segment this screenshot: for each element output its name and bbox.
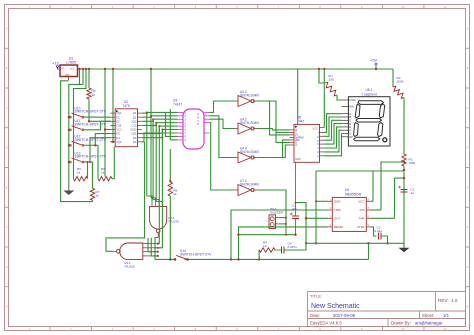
switch U11 SWITCH-SPST-2TV — [68, 119, 107, 131]
svg-text:C12: C12 — [131, 124, 136, 128]
svg-text:C: C — [6, 107, 8, 110]
svg-text:74LS20: 74LS20 — [124, 265, 135, 269]
wires bus verticals down — [147, 69, 163, 201]
inverter U4.2 SN74LS04N — [234, 118, 260, 134]
resistor R6 — [98, 167, 112, 181]
title block REV — [438, 298, 458, 303]
resistor R7 — [90, 162, 99, 202]
capacitor C4 0.047u — [275, 242, 306, 254]
wire R2 down — [403, 98, 405, 155]
switch U10 SWITCH-SPST-2TV — [68, 107, 107, 119]
svg-text:330: 330 — [329, 78, 334, 82]
svg-text:100k: 100k — [409, 161, 416, 165]
svg-text:1k: 1k — [96, 193, 100, 197]
title block Date label — [310, 313, 320, 318]
wire U3 A to inverter 1 — [210, 101, 234, 112]
U6.1 7-segment display — [342, 88, 391, 146]
U2 7475 latch — [111, 100, 142, 147]
title block drawn by value — [415, 321, 443, 326]
svg-text:TRIG: TRIG — [334, 208, 342, 212]
wire bottom rail — [155, 243, 369, 259]
wire +5V drop x113 — [111, 69, 115, 143]
svg-text:SWITCH-SPST-2TV: SWITCH-SPST-2TV — [75, 155, 107, 159]
svg-text:7 segment: 7 segment — [361, 93, 376, 97]
svg-text:VCC: VCC — [313, 127, 319, 131]
junction dots bottom rail — [169, 258, 260, 260]
svg-text:SN74LS04N: SN74LS04N — [240, 150, 259, 154]
svg-text:10: 10 — [263, 244, 267, 248]
svg-text:U9: U9 — [345, 188, 349, 192]
svg-text:Drawn By:: Drawn By: — [391, 321, 411, 326]
wire R5 right up to U13 row — [87, 161, 89, 179]
inverter U4.4 SN74LS04N — [234, 147, 260, 163]
svg-text:SWITCH-SPST-2TV: SWITCH-SPST-2TV — [75, 110, 107, 114]
wires U5 outputs to display segments — [324, 114, 342, 156]
svg-text:D2: D2 — [116, 119, 120, 123]
+12V supply symbol — [52, 61, 60, 70]
wire U12 to U2 D3 — [85, 134, 111, 179]
resistor R3 100k — [402, 154, 416, 166]
svg-text:0.01u: 0.01u — [375, 229, 383, 233]
svg-text:D1: D1 — [116, 115, 120, 119]
wire 555 OUT left — [306, 217, 328, 219]
svg-text:GND: GND — [130, 128, 136, 132]
svg-text:1Q4: 1Q4 — [116, 140, 122, 144]
wire U13 to U2 D4 — [85, 138, 111, 163]
svg-text:BUZZER: BUZZER — [271, 211, 284, 215]
svg-text:GND: GND — [334, 200, 340, 204]
wire GND net long horizontal — [316, 170, 404, 172]
svg-text:7475: 7475 — [122, 104, 130, 108]
wire regulator gnd to bottom left rail — [61, 81, 93, 202]
svg-text:anujbhatnagar: anujbhatnagar — [415, 321, 443, 326]
svg-text:G: G — [6, 266, 8, 269]
capacitor C1 1u — [399, 186, 415, 195]
wire inverter4 out to buzzer line — [257, 190, 287, 235]
wire U3 C to inverter 2 — [210, 119, 234, 128]
wire U3 area down x170 — [169, 149, 171, 183]
U5 7447 decoder — [290, 116, 325, 163]
svg-text:TITLE:: TITLE: — [310, 294, 322, 299]
svg-text:Sheet:: Sheet: — [422, 313, 434, 318]
wire U3 D to inverter 4 — [210, 123, 234, 190]
U8.1 74LS20 NAND — [150, 202, 179, 238]
wire 555 THR stub — [371, 217, 395, 219]
wire 555 VCC stub — [371, 200, 373, 202]
title block title text — [311, 303, 360, 310]
buzzer BG1 — [269, 207, 284, 228]
svg-text:Vout: Vout — [70, 68, 74, 71]
svg-text:D: D — [6, 147, 8, 150]
title block Sheet label — [422, 313, 434, 318]
svg-text:D3: D3 — [116, 132, 120, 136]
svg-text:DIS: DIS — [360, 208, 365, 212]
wire +5V down to U5 area — [297, 69, 299, 124]
wire 555 DIS stub — [371, 209, 381, 211]
svg-text:NE555DR: NE555DR — [345, 193, 362, 197]
title block frame — [308, 292, 466, 327]
wire R8 down to rail — [169, 196, 171, 259]
wire Rn to display COM — [337, 95, 342, 100]
ground symbol left — [63, 186, 74, 195]
svg-text:D: D — [467, 147, 469, 150]
wire U9 output up loop — [106, 142, 145, 251]
wire inverter1 out to U5 LT — [257, 101, 290, 143]
inverter U7.2 SN74LS04N — [234, 179, 260, 195]
wire VCC up route — [372, 171, 374, 201]
resistor R4 — [87, 88, 96, 99]
svg-text:1k: 1k — [173, 192, 177, 196]
resistor R5 — [74, 167, 88, 181]
svg-text:G: G — [467, 266, 469, 269]
wire 555 TRIG left — [231, 210, 328, 259]
ground symbol right — [399, 243, 410, 252]
title block sheet value — [443, 313, 450, 318]
svg-text:1/1: 1/1 — [443, 313, 450, 318]
svg-text:47u: 47u — [292, 207, 297, 211]
wire 555 GND left — [315, 171, 328, 245]
svg-text:Vin: Vin — [62, 69, 65, 71]
wire +5V to U5 VCC — [323, 69, 325, 128]
wire buzzer bottom rail — [237, 234, 296, 236]
resistor network Rn 330 — [325, 74, 337, 96]
svg-text:1k: 1k — [101, 170, 105, 174]
svg-text:Date:: Date: — [310, 313, 320, 318]
wire rail short drop — [79, 69, 81, 84]
title block TITLE label — [310, 294, 322, 299]
wire rail drop to R5 — [74, 69, 87, 179]
wire 555 CTRL to C2 — [371, 227, 377, 236]
U9.1 74LS20 NAND — [112, 243, 159, 269]
svg-text:C34: C34 — [116, 124, 121, 128]
svg-text:L7805: L7805 — [66, 61, 76, 65]
wire +5V to U2 VCC — [104, 69, 111, 177]
title block date value — [333, 313, 356, 318]
wire ground rail — [306, 242, 404, 244]
svg-text:Q4: Q4 — [133, 136, 137, 140]
svg-text:U6.1: U6.1 — [366, 88, 373, 92]
wire U3 B to inverter 3 — [210, 116, 234, 158]
svg-text:Q4: Q4 — [133, 140, 137, 144]
junctions on R3 line — [403, 169, 405, 180]
resistor R2 100K — [393, 76, 405, 98]
wire inverter2 out to U5 B — [257, 129, 290, 130]
wire R6 right up to U2 — [112, 147, 114, 179]
svg-text:C: C — [467, 107, 469, 110]
svg-text:GND: GND — [295, 158, 301, 161]
svg-text:A: A — [295, 143, 297, 147]
U9 NE555DR timer — [328, 188, 372, 231]
svg-text:REV: 1.0: REV: 1.0 — [438, 298, 458, 303]
svg-text:100K: 100K — [397, 80, 405, 84]
wire rail drop 3 to R4 — [88, 69, 90, 88]
switch U12 SWITCH-SPST-2TV — [68, 135, 107, 147]
svg-text:COM: COM — [349, 98, 355, 102]
svg-text:GND: GND — [65, 75, 70, 77]
svg-text:N/A: N/A — [349, 105, 354, 109]
svg-text:74147: 74147 — [173, 103, 182, 107]
svg-text:+12: +12 — [52, 61, 60, 66]
wire U10 to U2 D1 — [85, 116, 111, 118]
switch U14 SWITCH-SPST-2TV — [174, 249, 212, 260]
svg-text:H: H — [6, 306, 8, 309]
svg-text:1k: 1k — [92, 93, 96, 97]
title block EasyEDA version — [310, 321, 342, 326]
wires bus to U9 inputs — [148, 199, 162, 256]
wire R3 down to ground — [403, 166, 405, 243]
svg-text:SWITCH-SPST-2TV: SWITCH-SPST-2TV — [75, 122, 107, 126]
svg-text:CTRL: CTRL — [357, 225, 365, 229]
svg-text:SN74LS04N: SN74LS04N — [240, 121, 259, 125]
svg-text:OUT: OUT — [334, 217, 340, 221]
capacitor C2 0.01u — [375, 225, 383, 239]
wires U2 outputs to U3 inputs bus — [142, 109, 178, 142]
svg-text:D: D — [197, 123, 199, 126]
regulator U1 L7805 — [57, 57, 80, 81]
title block Drawn By label — [391, 321, 411, 326]
svg-text:DP: DP — [349, 135, 353, 139]
+5V power symbol — [370, 58, 378, 70]
wire C3 jog to OUT line — [295, 202, 308, 245]
U3 74147 encoder — [173, 99, 210, 150]
svg-text:H: H — [467, 306, 469, 309]
capacitor C3 47u — [290, 162, 299, 234]
svg-text:1u: 1u — [411, 191, 415, 195]
svg-text:SN74LS04N: SN74LS04N — [240, 93, 259, 97]
wire U11 to U2 D2 — [85, 121, 111, 130]
wire rail drop to switch common — [69, 69, 83, 186]
svg-text:Q1: Q1 — [133, 111, 137, 115]
wire inverter3 out to U5 RBI — [257, 140, 290, 158]
svg-text:VCC: VCC — [116, 128, 122, 132]
svg-text:2017-09-09: 2017-09-09 — [333, 313, 356, 318]
svg-text:RESET: RESET — [334, 225, 344, 229]
resistor R9 — [259, 241, 275, 260]
wire +5V top rail — [80, 68, 394, 70]
wire U8 output down — [155, 238, 158, 260]
resistor R8 — [168, 182, 177, 196]
junction dots on +5V rail — [78, 68, 377, 70]
svg-text:0.047u: 0.047u — [288, 245, 298, 249]
svg-text:EasyEDA V4.8.5: EasyEDA V4.8.5 — [310, 321, 342, 326]
wire DIS up route — [381, 162, 404, 210]
svg-text:THR: THR — [359, 217, 365, 221]
svg-text:New Schematic: New Schematic — [311, 303, 360, 310]
svg-text:+5V: +5V — [370, 58, 378, 63]
wire 555 RESET left — [239, 227, 328, 260]
wire C2 to ground rail — [381, 236, 389, 245]
wire +5V to Rn — [319, 69, 325, 83]
inverter U2.2 SN74LS04N — [234, 90, 260, 106]
wire buzzer pins to line — [280, 217, 287, 225]
svg-text:SWITCH-SPST-2TV: SWITCH-SPST-2TV — [75, 138, 107, 142]
svg-text:D4: D4 — [116, 136, 120, 140]
svg-text:74LS20: 74LS20 — [168, 220, 179, 224]
svg-text:VCC: VCC — [358, 200, 364, 204]
svg-text:1Q3: 1Q3 — [131, 132, 137, 136]
switch U13 SWITCH-SPST-2TV — [68, 151, 107, 163]
svg-text:SN74LS04N: SN74LS04N — [240, 182, 259, 186]
svg-text:1k: 1k — [77, 170, 81, 174]
svg-text:SWITCH-SPST-2TV: SWITCH-SPST-2TV — [180, 252, 212, 256]
svg-text:Q1: Q1 — [133, 115, 137, 119]
wire R4 to U2 pin C34 — [88, 99, 111, 123]
wire THR up route — [395, 178, 405, 218]
wires bus to U8 inputs — [147, 196, 163, 202]
wire rail right turn down — [392, 69, 394, 87]
svg-text:1Q2: 1Q2 — [131, 119, 137, 123]
